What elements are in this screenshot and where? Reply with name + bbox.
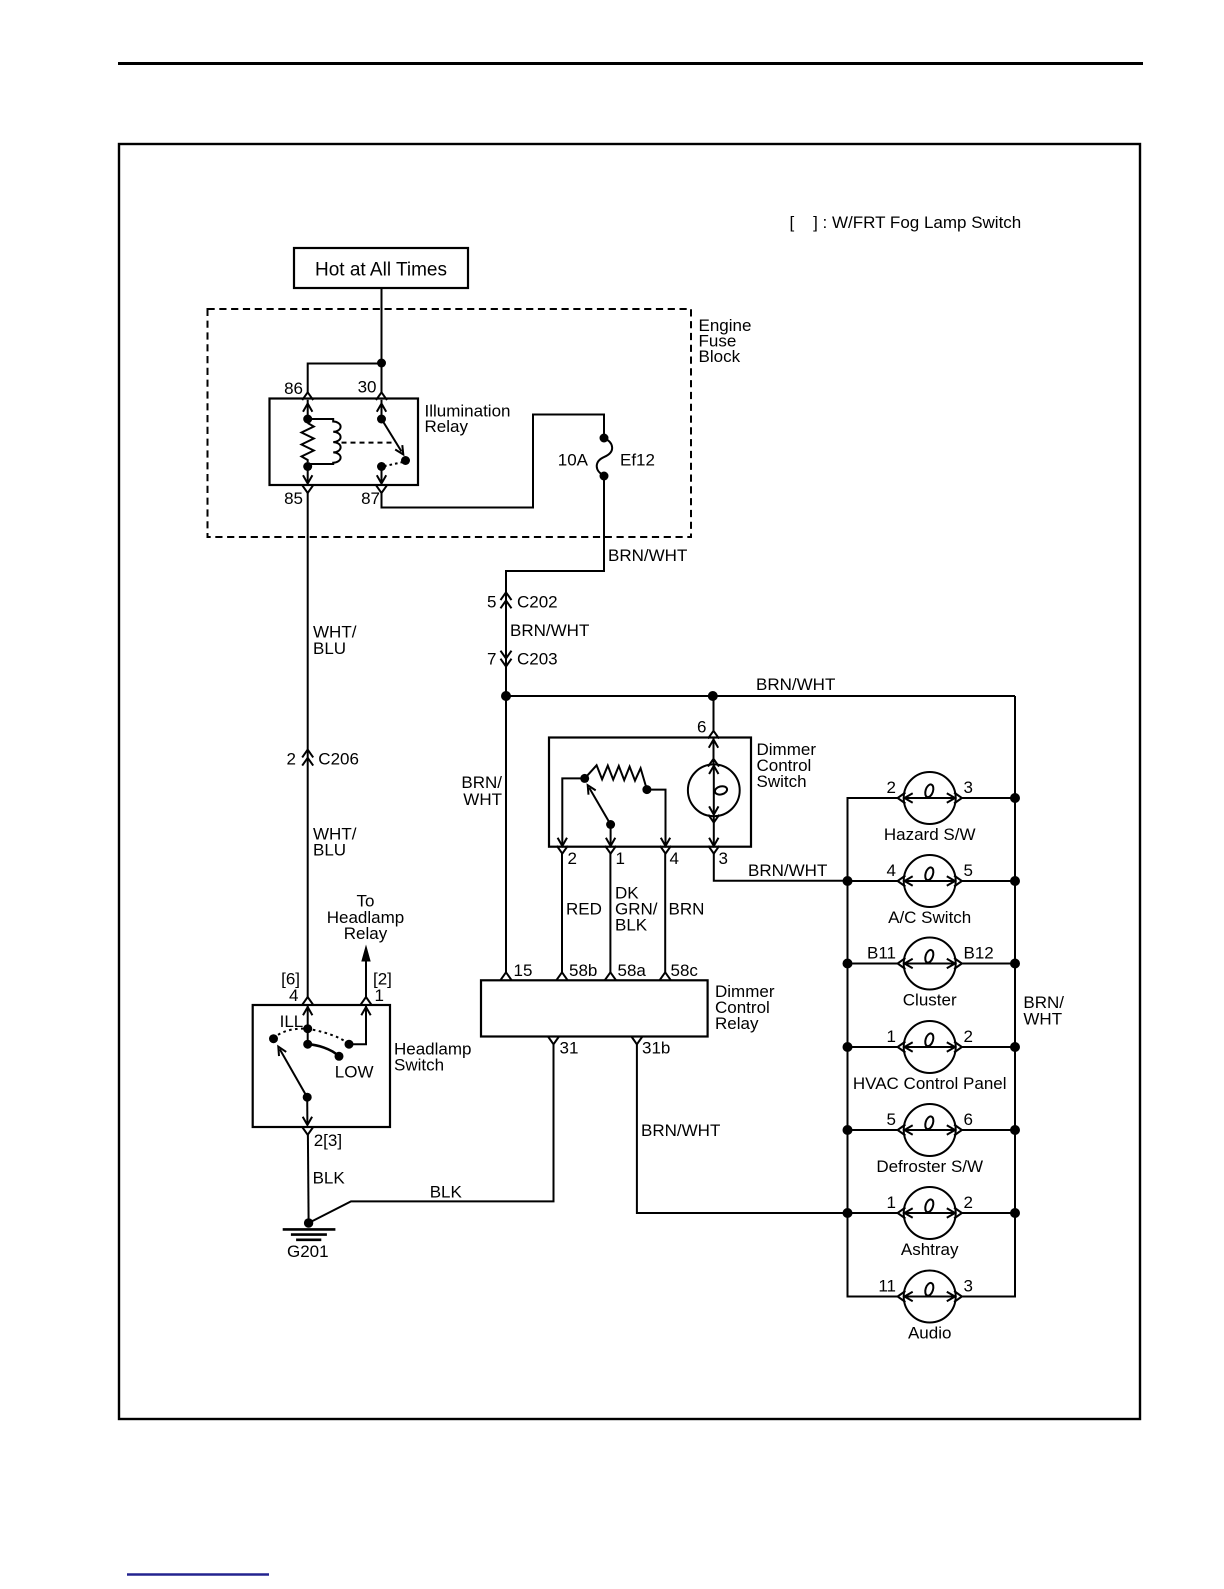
label ILL xyxy=(280,1012,304,1031)
svg-text:BRN/WHT: BRN/WHT xyxy=(756,675,835,694)
svg-text:Relay: Relay xyxy=(344,924,388,943)
lamp symbol ashtray (Ashtray) pins 1/2 xyxy=(848,1187,1016,1259)
connector C202 pin 5 xyxy=(487,592,558,611)
wire: C202 to C203 xyxy=(505,593,507,660)
label G201 xyxy=(287,1242,329,1261)
label RED xyxy=(566,900,602,919)
label DK GRN/BLK xyxy=(615,884,658,935)
svg-text:85: 85 xyxy=(284,489,303,508)
svg-text:BLK: BLK xyxy=(615,916,648,935)
label WHT/BLU (upper) xyxy=(313,623,357,659)
lamp symbol AC switch (A/C Switch) pins 4/5 xyxy=(848,855,1016,927)
pin 87 connector xyxy=(361,485,387,508)
right riser junction dots xyxy=(1010,793,1020,1218)
svg-text:Switch: Switch xyxy=(757,772,807,791)
label Headlamp Switch xyxy=(394,1040,472,1075)
svg-text:BLK: BLK xyxy=(430,1183,463,1202)
headlamp switch wiper xyxy=(278,1047,307,1098)
rheostat wiper node xyxy=(606,820,615,829)
lamp symbol HVAC control panel (HVAC Control Panel) pins 1/2 xyxy=(848,1021,1016,1093)
pin 2 internal lead xyxy=(558,778,585,846)
label Dimmer Control Relay xyxy=(715,982,775,1033)
wire: pin 2 to relay 58b (RED) xyxy=(561,854,563,973)
pin 85 internal lead xyxy=(303,467,312,484)
ILL right contact node xyxy=(345,1040,354,1049)
pin 31 connector xyxy=(548,1037,578,1058)
diagram border frame xyxy=(119,144,1140,1419)
footer link line xyxy=(127,1573,269,1575)
label [2] 1 xyxy=(373,970,392,1006)
label BRN xyxy=(669,900,705,919)
pin 86 internal lead xyxy=(303,400,312,419)
label BRN/WHT (bus) xyxy=(756,675,835,694)
svg-text:BRN/WHT: BRN/WHT xyxy=(608,546,687,565)
svg-text:7: 7 xyxy=(487,650,496,669)
pin 58c connector xyxy=(660,961,699,980)
relay switch common (pin 30) node xyxy=(377,415,386,424)
wire: headlamp switch to ground (BLK) xyxy=(307,1135,310,1221)
svg-text:30: 30 xyxy=(358,378,377,397)
svg-text:C206: C206 xyxy=(318,750,359,769)
legend: W/FRT Fog Lamp Switch note xyxy=(790,213,1022,232)
svg-text:2: 2 xyxy=(964,1027,973,1046)
pin 4 internal lead xyxy=(647,790,670,846)
wiper pivot node xyxy=(303,1093,312,1102)
pin 15 connector xyxy=(501,961,533,980)
svg-text:1: 1 xyxy=(616,849,625,868)
wire: pin 31 to ground (BLK) xyxy=(309,1044,554,1223)
svg-text:15: 15 xyxy=(514,961,533,980)
svg-text:58c: 58c xyxy=(671,961,699,980)
dimmer control relay box xyxy=(481,980,708,1036)
ILL mechanical link (dotted) xyxy=(274,1029,350,1045)
svg-text:1: 1 xyxy=(375,986,384,1005)
wire: pin 3 to node D (BRN/WHT) xyxy=(714,854,848,881)
wire: fuse to C202 xyxy=(506,476,604,601)
svg-text:Defroster S/W: Defroster S/W xyxy=(876,1157,983,1176)
relay switch dotted gap xyxy=(385,462,403,466)
node C junction xyxy=(708,691,718,701)
pin 6 connector xyxy=(697,718,719,739)
label [6] 4 xyxy=(281,970,300,1006)
svg-text:LOW: LOW xyxy=(335,1063,374,1082)
relay mechanical link (dashed) xyxy=(342,442,393,444)
svg-text:WHT: WHT xyxy=(1023,1010,1062,1029)
left riser junction dots xyxy=(843,876,853,1218)
relay switch blade xyxy=(382,419,404,455)
svg-text:B11: B11 xyxy=(867,944,896,963)
label LOW xyxy=(335,1063,374,1082)
lamp symbol defroster switch (Defroster S/W) pins 5/6 xyxy=(848,1104,1016,1176)
connector C203 pin 7 xyxy=(487,650,558,669)
wire: pin 85 to headlamp switch (WHT/BLU) xyxy=(307,493,309,997)
power source box Hot at All Times xyxy=(294,248,468,288)
fuse Ef12 10A xyxy=(558,434,655,481)
svg-text:Hot at All Times: Hot at All Times xyxy=(315,260,447,281)
lamp chevron below bulb xyxy=(708,815,719,823)
lamp symbol cluster (Cluster) pins B11/B12 xyxy=(848,938,1016,1010)
pin 87 internal lead xyxy=(377,467,386,484)
svg-text:Hazard S/W: Hazard S/W xyxy=(884,825,976,844)
svg-text:Switch: Switch xyxy=(394,1056,444,1075)
svg-text:BLK: BLK xyxy=(313,1169,346,1188)
headlamp switch box xyxy=(253,1005,390,1127)
pin 30 connector xyxy=(358,378,387,401)
pin 1 connector (headlamp) xyxy=(361,997,372,1005)
svg-text:6: 6 xyxy=(964,1110,973,1129)
wire: pin 31b to node E (BRN/WHT) xyxy=(637,1044,848,1213)
wire: Hot at All Times down to node A xyxy=(381,288,383,363)
svg-text:6: 6 xyxy=(697,718,706,737)
wire: pin 87 to fuse Ef12 xyxy=(382,415,605,508)
pin 6 internal lead xyxy=(709,738,718,765)
pin 30 internal lead xyxy=(377,400,386,419)
svg-text:2: 2 xyxy=(568,849,577,868)
load bus left riser xyxy=(848,798,898,1297)
label To Headlamp Relay xyxy=(327,892,405,944)
relay box Illumination Relay xyxy=(270,399,419,486)
svg-text:Block: Block xyxy=(699,347,741,366)
pin 4 connector xyxy=(660,846,679,868)
rheostat wiper arrow xyxy=(588,785,611,824)
svg-text:Relay: Relay xyxy=(715,1014,759,1033)
svg-text:BRN/WHT: BRN/WHT xyxy=(510,621,589,640)
svg-text:5: 5 xyxy=(487,593,496,612)
dimmer illumination bulb xyxy=(688,764,740,816)
svg-text:BLU: BLU xyxy=(313,841,346,860)
svg-text:WHT: WHT xyxy=(463,790,502,809)
dimmer control switch box xyxy=(549,738,751,847)
pin 87 internal node xyxy=(377,462,386,471)
switch center node xyxy=(303,1040,312,1049)
svg-text:31b: 31b xyxy=(642,1039,670,1058)
svg-text:58a: 58a xyxy=(618,961,647,980)
relay coil resistor xyxy=(302,423,314,462)
svg-text:3: 3 xyxy=(964,1277,973,1296)
lamp symbol audio (Audio) pins 11/3 xyxy=(848,1271,1016,1343)
label WHT/BLU (lower) xyxy=(313,825,357,860)
pin 1 connector xyxy=(605,846,625,868)
ground node xyxy=(304,1218,313,1227)
pin 3 internal lead xyxy=(709,816,718,846)
LOW contact curve xyxy=(308,1044,339,1056)
relay switch contact node xyxy=(401,456,410,465)
svg-text:10A: 10A xyxy=(558,451,589,470)
LOW contact node xyxy=(335,1052,344,1061)
pin 58b connector xyxy=(557,961,598,980)
pin 4 internal lead (headlamp) xyxy=(303,1005,312,1044)
svg-text:3: 3 xyxy=(964,778,973,797)
wire: node C to dimmer pin 6 xyxy=(713,696,715,731)
node B junction xyxy=(501,691,511,701)
relay coil inductor xyxy=(308,419,341,464)
svg-text:BRN/WHT: BRN/WHT xyxy=(641,1121,720,1140)
wire: pin 4 to relay 58c (BRN) xyxy=(664,854,666,973)
svg-text:4: 4 xyxy=(289,986,298,1005)
svg-text:Ashtray: Ashtray xyxy=(901,1240,959,1259)
svg-text:A/C Switch: A/C Switch xyxy=(888,908,971,927)
relay coil top node xyxy=(303,415,312,424)
svg-text:Cluster: Cluster xyxy=(903,991,957,1010)
svg-text:58b: 58b xyxy=(569,961,597,980)
svg-text:RED: RED xyxy=(566,900,602,919)
pin 2[3] connector xyxy=(302,1127,342,1150)
svg-text:3: 3 xyxy=(719,849,728,868)
label Dimmer Control Switch xyxy=(757,740,817,791)
label Engine Fuse Block xyxy=(699,316,752,366)
svg-text:Ef12: Ef12 xyxy=(620,451,655,470)
pin 3 connector xyxy=(708,846,728,868)
svg-text:Audio: Audio xyxy=(908,1324,951,1343)
lamp chevron above bulb xyxy=(708,759,719,767)
label BRN/WHT (below fuse block) xyxy=(608,546,687,565)
wire: node A to relay pin 86 xyxy=(308,364,382,393)
svg-text:G201: G201 xyxy=(287,1242,329,1261)
svg-text:BRN: BRN xyxy=(669,900,705,919)
svg-text:1: 1 xyxy=(887,1193,896,1212)
pin 1 internal lead (headlamp) xyxy=(349,1005,371,1044)
svg-text:HVAC Control Panel: HVAC Control Panel xyxy=(853,1074,1007,1093)
svg-text:5: 5 xyxy=(964,861,973,880)
label Illumination Relay xyxy=(425,402,511,437)
rheostat resistor xyxy=(585,765,647,789)
top rule xyxy=(118,62,1143,65)
svg-text:B12: B12 xyxy=(964,944,994,963)
label BRN/WHT (C202-C203) xyxy=(510,621,589,640)
svg-text:1: 1 xyxy=(887,1027,896,1046)
wire: C203 to node B xyxy=(505,659,507,697)
svg-text:2: 2 xyxy=(964,1193,973,1212)
svg-text:BRN/WHT: BRN/WHT xyxy=(748,861,827,880)
svg-text:87: 87 xyxy=(361,489,380,508)
label BRN/WHT (pin 31b wire) xyxy=(641,1121,720,1140)
wire: node B to relay pin 15 xyxy=(505,696,507,972)
label BRN/WHT (pin 15 wire) xyxy=(461,773,502,809)
bus wire BRN/WHT horizontal xyxy=(506,695,1015,697)
relay coil bottom node xyxy=(303,462,312,471)
pin 86 connector xyxy=(284,379,313,400)
ground G201 symbol xyxy=(283,1229,336,1239)
ILL left contact node xyxy=(269,1034,278,1043)
svg-text:5: 5 xyxy=(887,1110,896,1129)
svg-text:C202: C202 xyxy=(517,593,558,612)
label BRN/WHT (pin 3 wire) xyxy=(748,861,827,880)
pin 2 connector xyxy=(557,846,577,868)
rheostat right node xyxy=(642,785,651,794)
label BLK (horizontal run) xyxy=(430,1183,463,1202)
svg-text:Relay: Relay xyxy=(425,417,469,436)
svg-text:4: 4 xyxy=(887,861,896,880)
engine fuse block (dashed) xyxy=(208,309,692,537)
pin 31b connector xyxy=(631,1037,670,1058)
lamp symbol hazard switch (Hazard S/W) pins 2/3 xyxy=(848,772,1016,844)
bus right riser wire xyxy=(962,696,1015,1297)
svg-text:[ ] : W/FRT Fog Lamp Switch: [ ] : W/FRT Fog Lamp Switch xyxy=(790,213,1022,232)
node A junction xyxy=(377,359,386,368)
rheostat left node xyxy=(580,774,589,783)
svg-text:2[3]: 2[3] xyxy=(314,1131,342,1150)
label BLK (vertical run) xyxy=(313,1169,346,1188)
pin 58a connector xyxy=(605,961,647,980)
svg-text:11: 11 xyxy=(878,1277,896,1296)
svg-text:86: 86 xyxy=(284,379,303,398)
pin 85 connector xyxy=(284,485,313,508)
ILL link node xyxy=(303,1024,312,1033)
wire: pin 1 to relay 58a (DK GRN/BLK) xyxy=(609,854,611,973)
svg-text:BLU: BLU xyxy=(313,639,346,658)
svg-text:4: 4 xyxy=(670,849,679,868)
svg-text:C203: C203 xyxy=(517,650,558,669)
arrow to headlamp relay xyxy=(361,945,370,998)
label BRN/WHT (right riser) xyxy=(1023,993,1064,1029)
svg-text:ILL: ILL xyxy=(280,1012,304,1031)
pin 1 internal lead xyxy=(606,825,615,847)
pin 2[3] internal lead xyxy=(303,1097,312,1125)
pin 4 connector (headlamp) xyxy=(302,997,313,1005)
svg-text:2: 2 xyxy=(887,778,896,797)
wire: node A to relay pin 30 xyxy=(381,363,383,393)
svg-text:2: 2 xyxy=(287,750,296,769)
svg-text:31: 31 xyxy=(560,1039,579,1058)
connector C206 pin 2 xyxy=(287,750,359,769)
